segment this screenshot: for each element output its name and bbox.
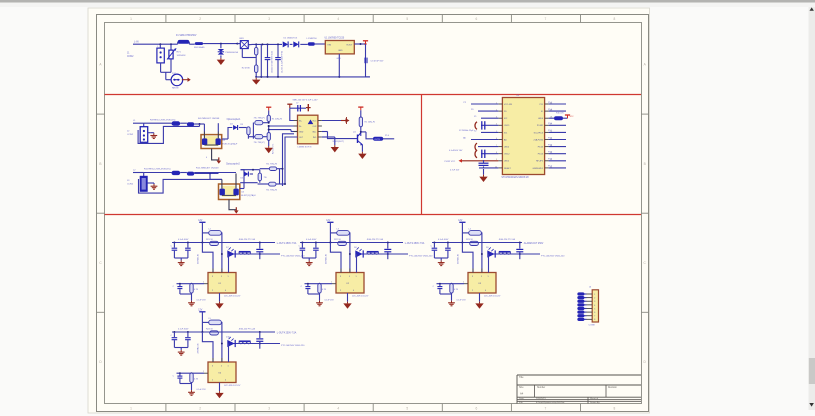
wire relay coil gnd block 2 — [348, 293, 369, 302]
svg-text:S9013(SOT): S9013(SOT) — [332, 141, 344, 143]
title block — [517, 375, 641, 404]
svg-text:D2 1N4007: D2 1N4007 — [284, 37, 295, 39]
svg-text:Drawn By:: Drawn By: — [590, 401, 600, 404]
capacitor C13a block — [171, 332, 178, 348]
svg-text:3: 3 — [268, 17, 270, 21]
section divider vertical line — [421, 95, 423, 215]
svg-text:JK60-220 PTC-2A: JK60-220 PTC-2A — [239, 328, 256, 331]
wire mcu pin1 — [464, 102, 499, 104]
svg-text:4: 4 — [225, 380, 226, 382]
svg-text:3: 3 — [212, 365, 213, 367]
ground caps block 1 — [178, 260, 185, 265]
capacitor C11b block — [302, 239, 318, 261]
svg-text:0.1uF 25V: 0.1uF 25V — [197, 389, 207, 391]
capacitor C3 output — [365, 44, 384, 77]
capacitor C10c block — [256, 243, 263, 260]
svg-text:CON8: CON8 — [589, 325, 596, 327]
svg-text:0.1uF 400V: 0.1uF 400V — [178, 239, 189, 241]
inductor FB1 — [194, 42, 205, 49]
svg-text:4.7K: 4.7K — [454, 289, 459, 291]
svg-text:JZC-32F-DC12V: JZC-32F-DC12V — [484, 295, 501, 297]
power port 12V block 3 — [458, 220, 465, 242]
led D9 — [486, 247, 495, 258]
optocoupler U4 — [219, 173, 257, 199]
resistor R1 upper divider — [247, 44, 258, 58]
svg-text:8: 8 — [594, 319, 595, 321]
svg-text:4: 4 — [353, 290, 354, 292]
svg-text:R23 1K: R23 1K — [466, 239, 474, 241]
svg-text:5: 5 — [221, 365, 222, 367]
svg-text:R2 10K 1%: R2 10K 1% — [272, 144, 274, 154]
net label IN2 — [133, 170, 144, 173]
capacitor C10b block — [174, 239, 190, 261]
resistor R14 horizontal — [260, 164, 280, 171]
wire mcu pin6 — [463, 137, 498, 140]
wire ch2 bus up — [280, 134, 298, 186]
svg-text:73L 73K(-P): 73L 73K(-P) — [266, 189, 277, 191]
svg-text:7: 7 — [544, 406, 546, 410]
ground below R9 — [265, 146, 273, 153]
ground relay block 4 — [215, 391, 223, 398]
resistor R16 and power flag — [549, 113, 575, 121]
svg-text:1: 1 — [130, 406, 132, 410]
window top bar — [0, 0, 815, 7]
svg-text:OSC2: OSC2 — [504, 154, 510, 156]
svg-text:L-OUT4 250V-7.5A: L-OUT4 250V-7.5A — [277, 331, 297, 334]
net label block 4 out B — [281, 344, 305, 347]
net label IN1 — [133, 120, 144, 123]
tvs diode D1 — [218, 44, 239, 58]
svg-text:P3.63: P3.63 — [538, 147, 544, 149]
wire bottom rail power section — [256, 44, 370, 78]
wire bridge output — [242, 43, 282, 57]
svg-text:2: 2 — [199, 17, 201, 21]
svg-text:GND: GND — [337, 58, 342, 60]
section divider line 1 — [105, 94, 642, 96]
svg-text:CON2: CON2 — [127, 134, 134, 136]
svg-text:P3.03: P3.03 — [538, 154, 544, 156]
svg-text:5: 5 — [221, 276, 222, 278]
svg-text:VCC: VCC — [312, 121, 317, 123]
relay K3 — [462, 243, 496, 294]
svg-text:1: 1 — [130, 17, 132, 21]
svg-text:L-OUT2 250V-7.5A: L-OUT2 250V-7.5A — [405, 242, 425, 245]
resistor R6 horizontal — [253, 118, 268, 139]
wire relay left pin block 4 — [177, 371, 209, 374]
svg-text:FB1 BEAD: FB1 BEAD — [194, 46, 205, 49]
diode D5 — [240, 170, 253, 189]
svg-text:3: 3 — [268, 406, 270, 410]
wire relay left pin block 2 — [305, 281, 337, 284]
net label block 3 out A — [524, 242, 544, 245]
resistor R22 block — [334, 239, 346, 246]
vertical text block 2 — [324, 253, 327, 264]
svg-text:4: 4 — [225, 290, 226, 292]
ground caps block 2 — [306, 260, 313, 265]
inductor coil block 4 — [239, 341, 251, 343]
svg-text:GND: GND — [299, 132, 304, 134]
net label block 2 out A — [405, 242, 425, 245]
wire rail 1 block 3 — [432, 238, 522, 243]
power port 12V block 2 — [326, 220, 333, 242]
svg-text:R24 1K: R24 1K — [206, 329, 214, 331]
svg-text:5: 5 — [406, 406, 408, 410]
power wire mcu pin9 — [445, 159, 499, 163]
resistor R3 — [172, 121, 187, 125]
svg-text:220VAC-IN: 220VAC-IN — [324, 253, 327, 264]
svg-text:R4 ZMM-4K7 1N4148: R4 ZMM-4K7 1N4148 — [198, 118, 220, 120]
net label block 2 out B — [409, 255, 433, 258]
led D8 — [354, 247, 363, 258]
svg-text:4: 4 — [337, 406, 339, 410]
optocoupler U2 — [201, 132, 238, 149]
vertical text block 1 — [196, 253, 199, 264]
capacitor C10a block — [171, 243, 178, 259]
svg-text:EL817(C)(TA)-F: EL817(C)(TA)-F — [241, 194, 256, 197]
svg-text:GN/W-WD1: GN/W-WD1 — [532, 168, 543, 170]
wire input 2 net — [144, 169, 172, 173]
capacitor C8 reset — [450, 160, 498, 175]
svg-text:Title: Title — [519, 376, 524, 379]
svg-text:0.1uF 400V: 0.1uF 400V — [438, 239, 449, 241]
ground relay block 3 — [475, 302, 483, 309]
svg-text:1: 1 — [228, 276, 229, 278]
capacitor C13d block — [173, 373, 183, 383]
inductor L3 — [330, 228, 351, 272]
svg-text:5: 5 — [349, 276, 350, 278]
wire rail 2 block 3 — [488, 253, 541, 255]
ground base block 3 — [448, 299, 466, 306]
svg-text:2: 2 — [463, 281, 464, 283]
svg-text:VOUT: VOUT — [346, 45, 353, 47]
svg-text:PTC-2A 250V JK60-220: PTC-2A 250V JK60-220 — [409, 255, 433, 258]
schematic sheet page — [88, 8, 650, 413]
svg-text:R1 10K(-P): R1 10K(-P) — [365, 122, 376, 124]
ground connector J2 — [150, 133, 157, 139]
svg-text:GND: GND — [338, 50, 343, 52]
svg-text:2: 2 — [203, 371, 204, 373]
svg-text:R22 1K: R22 1K — [334, 239, 342, 241]
ground caps block 4 — [178, 350, 185, 355]
ground below Q1 — [358, 152, 366, 159]
connector J1 AC input — [127, 44, 164, 68]
svg-text:VIN: VIN — [327, 45, 331, 47]
wire rail 1 block 4 — [172, 328, 275, 333]
power port gnd below U4 — [229, 200, 239, 214]
svg-text:4.7K: 4.7K — [194, 289, 199, 291]
svg-text:Date:: Date: — [519, 397, 525, 400]
ground below C8 — [479, 175, 487, 182]
svg-text:1: 1 — [488, 276, 489, 278]
wire varistor to lamp — [161, 69, 171, 80]
svg-text:1: 1 — [594, 294, 595, 296]
regulator U1 LM7805 — [325, 38, 366, 54]
power port 12V block 4 — [198, 310, 205, 332]
ground relay block 1 — [215, 302, 223, 309]
svg-text:5: 5 — [406, 17, 408, 21]
svg-text:2: 2 — [340, 290, 341, 292]
svg-text:73L 73K(-P): 73L 73K(-P) — [266, 164, 277, 166]
ground base block 1 — [188, 299, 206, 306]
wire mcu right pins — [548, 102, 566, 168]
svg-text:OUT1: OUT1 — [375, 139, 381, 141]
wire rail 1 block 1 — [172, 238, 275, 243]
svg-text:P6KE400CA: P6KE400CA — [226, 51, 239, 54]
capacitor C6 — [475, 143, 498, 151]
svg-text:LED0: LED0 — [504, 147, 510, 149]
wire mcu pin5 — [474, 130, 498, 132]
svg-text:73L 73K(-P): 73L 73K(-P) — [254, 142, 265, 144]
diode D3 — [293, 37, 308, 47]
svg-text:10D561K: 10D561K — [177, 55, 187, 57]
capacitor C10d block — [173, 284, 183, 294]
svg-text:PTC-2A 250V JK60-220: PTC-2A 250V JK60-220 — [541, 255, 565, 258]
wire AC input top — [150, 43, 178, 45]
inductor coil block 1 — [239, 252, 251, 254]
resistor R32 base — [308, 284, 327, 301]
capacitor C7 — [449, 150, 498, 158]
connector J3 input 2 — [127, 173, 147, 192]
svg-text:5: 5 — [594, 308, 595, 310]
svg-text:6: 6 — [475, 406, 477, 410]
svg-text:1: 1 — [356, 276, 357, 278]
svg-text:OU2: OU2 — [313, 126, 317, 128]
svg-text:U1 LM7805-TO220: U1 LM7805-TO220 — [325, 38, 345, 40]
inductor L5 — [202, 318, 223, 362]
power port gnd below U2 — [206, 149, 221, 164]
svg-text:5: 5 — [481, 276, 482, 278]
transistor Q1 — [332, 132, 363, 146]
ground caps block 3 — [438, 260, 445, 265]
svg-text:0.1uF/50V 16V: 0.1uF/50V 16V — [449, 150, 463, 152]
sheet inner border — [105, 23, 642, 404]
wire relay left pin block 1 — [177, 281, 209, 284]
svg-text:220VAC-IN: 220VAC-IN — [196, 253, 199, 264]
resistor R11 — [172, 171, 187, 175]
ground connector J3 — [151, 183, 158, 189]
resistor R31 base — [180, 284, 199, 301]
svg-text:0.1uF 25V: 0.1uF 25V — [197, 299, 207, 301]
svg-text:Sheet of: Sheet of — [590, 397, 599, 400]
text optocoupler label — [227, 118, 242, 121]
net label block 1 out B — [281, 255, 305, 258]
capacitor C2 electrolytic — [275, 44, 283, 77]
wire comparator output to Q1 — [322, 132, 356, 139]
resistor R9 pulldown — [267, 125, 274, 154]
svg-text:2: 2 — [212, 290, 213, 292]
resistor R15 horizontal — [258, 182, 280, 191]
wire relay coil gnd block 3 — [480, 293, 501, 302]
diode D4 — [222, 123, 247, 139]
comparator U3 pins — [294, 120, 322, 149]
net label OUT1 — [360, 131, 394, 141]
wire relay left pin block 3 — [437, 281, 469, 284]
inductor coil block 2 — [367, 252, 379, 254]
wire rail 2 block 1 — [228, 253, 281, 255]
svg-text:JK60-220 PTC-2A: JK60-220 PTC-2A — [367, 238, 384, 241]
vertical text block 4 — [196, 343, 199, 354]
wire Q1 emitter to ground — [361, 145, 363, 152]
capacitor C12d block — [433, 284, 443, 294]
svg-text:4: 4 — [485, 290, 486, 292]
resistor R4 — [187, 118, 220, 126]
svg-text:JZC-32F-DC12V: JZC-32F-DC12V — [352, 295, 369, 297]
wire rail 2 block 4 — [228, 343, 281, 345]
ground base block 4 — [188, 389, 206, 396]
scrollbar down arrow — [809, 403, 814, 407]
resistor R2 lower divider — [242, 58, 258, 78]
capacitor C12b block — [434, 239, 450, 261]
wire mcu pin2 — [471, 109, 498, 111]
resistor R13 vertical — [258, 170, 268, 183]
svg-text:X2 24MHz 22pF: X2 24MHz 22pF — [459, 130, 474, 132]
relay K2 — [330, 243, 364, 294]
svg-text:R1 10K(-P): R1 10K(-P) — [272, 118, 283, 120]
svg-text:2: 2 — [199, 406, 201, 410]
scrollbar track — [809, 7, 815, 410]
scrollbar up arrow — [810, 7, 814, 10]
wire inductor to bridge — [203, 43, 238, 45]
svg-text:JZC-32F-DC12V: JZC-32F-DC12V — [224, 295, 241, 297]
wire rail 1 block 2 — [300, 238, 403, 243]
wire into optocoupler U2 — [200, 123, 219, 131]
vertical text block 3 — [456, 253, 459, 264]
svg-text:4: 4 — [206, 157, 207, 159]
svg-text:Revision: Revision — [608, 387, 618, 389]
svg-text:2: 2 — [472, 290, 473, 292]
resistor R8 pullup — [267, 110, 282, 122]
svg-text:4.7uF 10V: 4.7uF 10V — [450, 170, 460, 172]
power port earth arrow — [182, 78, 191, 82]
svg-text:8: 8 — [614, 17, 616, 21]
connector J2 input 1 — [127, 123, 148, 142]
wire ch2 mid — [240, 169, 260, 183]
wire comparator inputs — [268, 122, 298, 132]
net label block 4 out A — [277, 331, 297, 334]
svg-text:RESET: RESET — [504, 168, 511, 170]
svg-text:CON2: CON2 — [127, 56, 134, 58]
svg-text:4: 4 — [337, 17, 339, 21]
inductor L4 — [462, 228, 483, 272]
net label block 3 out B — [541, 255, 565, 258]
svg-text:F1 SMD-075F/250V: F1 SMD-075F/250V — [176, 35, 197, 37]
svg-text:A4: A4 — [520, 392, 524, 396]
svg-text:220VAC-IN: 220VAC-IN — [196, 343, 199, 354]
svg-text:VCC: VCC — [570, 116, 575, 118]
capacitor C1 electrolytic — [265, 44, 274, 77]
svg-text:B: B — [644, 162, 646, 166]
ground base block 2 — [316, 299, 334, 306]
resistor R12 — [187, 168, 219, 176]
svg-text:2: 2 — [331, 281, 332, 283]
resistor R10 collector — [358, 107, 375, 132]
sheet outer border — [97, 15, 649, 412]
svg-text:R3 RES-0.25W-470K(1%): R3 RES-0.25W-470K(1%) — [150, 119, 176, 121]
svg-text:4.7K: 4.7K — [322, 289, 327, 291]
svg-text:2: 2 — [594, 298, 595, 300]
wire connector J2 loop — [138, 126, 199, 143]
varistor RV1 — [167, 44, 186, 68]
resistor R24 block — [206, 329, 218, 336]
red no-erc flag — [322, 117, 350, 124]
capacitor C12c block — [516, 243, 523, 260]
svg-text:NF-4P5: NF-4P5 — [536, 161, 544, 163]
svg-text:Optocoupler2: Optocoupler2 — [226, 163, 241, 166]
diode D2 — [283, 37, 295, 47]
svg-text:0.1uF 400V: 0.1uF 400V — [178, 328, 189, 330]
svg-text:6: 6 — [475, 17, 477, 21]
inductor L1 — [307, 38, 326, 46]
svg-text:R16 470: R16 470 — [556, 113, 564, 115]
svg-text:LED4: LED4 — [538, 118, 544, 120]
svg-text:IN-: IN- — [299, 126, 302, 128]
resistor R5 vertical — [240, 124, 250, 139]
fuse F1 — [176, 35, 197, 44]
svg-text:8: 8 — [614, 406, 616, 410]
svg-text:CON2: CON2 — [127, 184, 134, 186]
svg-text:C3 47uF 50V: C3 47uF 50V — [371, 61, 384, 63]
svg-text:3: 3 — [340, 276, 341, 278]
resistor R21 block — [206, 239, 218, 246]
comparator U3 LM393 — [298, 115, 318, 144]
frame zone ticks and labels — [97, 15, 649, 412]
svg-text:2: 2 — [212, 380, 213, 382]
ground relay block 2 — [343, 302, 351, 309]
bridge rectifier BR1 — [237, 38, 251, 49]
svg-text:R12 ZMM-4K7 1N4148: R12 ZMM-4K7 1N4148 — [196, 168, 219, 170]
capacitor C13c block — [256, 332, 263, 349]
svg-text:JK60-220 PTC-2A: JK60-220 PTC-2A — [239, 238, 256, 241]
svg-text:L1 MR750: L1 MR750 — [307, 38, 318, 40]
svg-text:7: 7 — [594, 316, 595, 318]
svg-text:21A-P0/34: 21A-P0/34 — [534, 138, 544, 141]
ground below comparator — [322, 137, 339, 152]
inductor coil block 3 — [499, 252, 511, 254]
relay K4 — [202, 332, 236, 383]
wire into optocoupler U4 — [194, 173, 236, 180]
svg-text:C7: C7 — [296, 102, 298, 104]
mcu U5 — [495, 95, 552, 179]
svg-text:3: 3 — [472, 276, 473, 278]
net label L-IN — [133, 41, 150, 45]
led D7 — [226, 247, 235, 258]
svg-text:0.1uF 25V: 0.1uF 25V — [325, 299, 335, 301]
svg-text:P-RST VCC: P-RST VCC — [445, 161, 456, 163]
svg-text:JK60-220 PTC-2A: JK60-220 PTC-2A — [499, 238, 516, 241]
svg-text:VCC-5W: VCC-5W — [504, 104, 512, 106]
svg-text:4: 4 — [594, 305, 595, 307]
svg-text:Optocoupler1: Optocoupler1 — [227, 118, 242, 121]
svg-text:0.1uF 400V: 0.1uF 400V — [306, 239, 317, 241]
svg-text:STC15W404AS-SKDIP-28: STC15W404AS-SKDIP-28 — [501, 176, 529, 179]
svg-text:3: 3 — [594, 301, 595, 303]
svg-text:2016/5/21: 2016/5/21 — [536, 398, 547, 400]
capacitor C11c block — [384, 243, 391, 260]
svg-text:L-IN: L-IN — [134, 41, 139, 44]
svg-text:2: 2 — [203, 281, 204, 283]
wire relay coil gnd block 1 — [220, 293, 241, 302]
power flag +12V output — [363, 41, 368, 45]
ground below tvs D1 — [217, 58, 225, 65]
svg-text:PTC-2A 250V JK60-220: PTC-2A 250V JK60-220 — [281, 255, 305, 258]
svg-text:CD110 470uF/35V 8x12: CD110 470uF/35V 8x12 — [271, 50, 273, 73]
led D10 — [226, 337, 235, 348]
svg-text:SMD-104 50V 0.1uF C-16V: SMD-104 50V 0.1uF C-16V — [293, 100, 319, 102]
capacitor C11a block — [299, 243, 306, 259]
capacitor C13b block — [174, 328, 190, 350]
svg-text:4.7K: 4.7K — [194, 378, 199, 380]
svg-text:CL21X 0.1uF/400V P10: CL21X 0.1uF/400V P10 — [282, 50, 284, 73]
